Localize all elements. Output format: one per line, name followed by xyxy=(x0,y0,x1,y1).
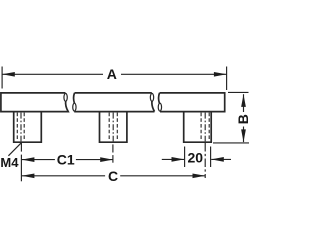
dimension C line left part xyxy=(21,175,105,177)
post right (outline) xyxy=(184,112,212,142)
centerline left post xyxy=(20,113,22,142)
arrowhead 20 left (pointing right) xyxy=(172,157,185,162)
thread hidden line left post b xyxy=(23,113,25,141)
svg-text:A: A xyxy=(107,66,117,82)
centerline middle post xyxy=(112,113,114,142)
arrowhead C right xyxy=(193,173,206,178)
handle bar middle segment xyxy=(74,93,155,112)
dimension A line right part xyxy=(121,73,227,75)
thread hidden line right post a xyxy=(200,113,202,141)
arrowhead 20 right (pointing left) xyxy=(211,157,224,162)
dimension A extension line right xyxy=(226,67,228,91)
svg-text:C1: C1 xyxy=(57,152,75,168)
dimension B extension line top xyxy=(228,91,249,93)
break lens middle piece end xyxy=(150,93,153,101)
svg-text:C: C xyxy=(108,168,118,184)
thread hidden line middle post b xyxy=(116,113,118,141)
axis extension below left post xyxy=(20,143,22,152)
arrowhead C1 right xyxy=(100,157,113,162)
dimension 20 shaft left xyxy=(162,158,184,160)
break lens right piece xyxy=(158,103,161,111)
arrowhead B bottom xyxy=(241,129,246,142)
dimension B line upper part xyxy=(243,94,245,112)
arrowhead A left xyxy=(2,72,15,77)
dimension C line right part xyxy=(120,175,205,177)
break lens left piece xyxy=(64,93,67,101)
arrowhead B top xyxy=(241,94,246,107)
handle bar right segment xyxy=(159,93,225,112)
dimension C1 line left part xyxy=(21,159,55,161)
thread hidden line left post a xyxy=(16,113,18,141)
post left (outline) xyxy=(14,112,42,142)
dimension A extension line left xyxy=(1,67,3,89)
thread hidden line right post b xyxy=(208,113,210,141)
svg-text:B: B xyxy=(235,114,250,124)
arrowhead C left xyxy=(22,173,35,178)
centerline right post xyxy=(204,113,206,142)
break lens middle piece start xyxy=(73,103,76,111)
axis extension below right post xyxy=(204,143,206,178)
dimension B line lower part xyxy=(243,127,245,143)
post middle (outline) xyxy=(100,112,127,142)
handle bar left segment xyxy=(1,93,68,112)
thread hidden line middle post a xyxy=(108,113,110,141)
leader line M4 xyxy=(8,143,21,156)
svg-text:20: 20 xyxy=(188,150,204,166)
svg-text:M4: M4 xyxy=(0,155,19,170)
dimension C1 line right part xyxy=(76,159,113,161)
dimension 20 shaft right xyxy=(211,158,231,160)
axis extension below middle post xyxy=(112,144,114,152)
dimension 20 extension line left xyxy=(184,147,186,168)
dimension B extension line bottom xyxy=(213,142,249,144)
arrowhead A right xyxy=(214,72,227,77)
dimension A line left part xyxy=(2,73,103,75)
arrowhead C1 left xyxy=(22,157,35,162)
dimension 20 extension line right xyxy=(210,147,212,168)
